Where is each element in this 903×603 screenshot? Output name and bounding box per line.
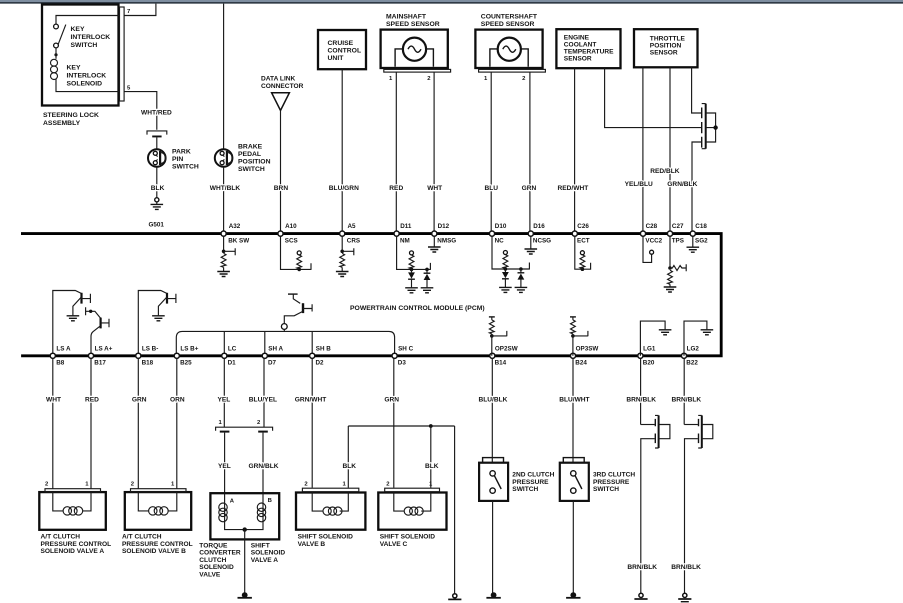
svg-text:SWITCH: SWITCH [238, 166, 265, 173]
diode to ground (NC high) [515, 269, 528, 292]
terminal D2 [310, 345, 332, 366]
svg-text:PARK: PARK [172, 149, 191, 156]
svg-text:D2: D2 [316, 360, 325, 367]
svg-text:CRUISE: CRUISE [328, 40, 354, 47]
terminal D16 [528, 223, 551, 245]
wire ECT pin 2 to connector [605, 68, 702, 127]
svg-text:SHIFT SOLENOID: SHIFT SOLENOID [380, 534, 436, 541]
diode to ground (NM low) [405, 269, 418, 292]
svg-text:LG1: LG1 [643, 345, 656, 352]
shift solenoid valve B [296, 482, 365, 548]
svg-text:ASSEMBLY: ASSEMBLY [43, 120, 81, 127]
svg-text:3RD CLUTCH: 3RD CLUTCH [593, 472, 635, 479]
wire TPS pin 3 to connector [692, 67, 702, 113]
wire 7 to top [124, 4, 156, 16]
svg-text:COUNTERSHAFT: COUNTERSHAFT [481, 14, 538, 21]
svg-text:B25: B25 [180, 360, 192, 367]
svg-text:YEL: YEL [218, 396, 231, 403]
svg-text:INTERLOCK: INTERLOCK [71, 34, 111, 41]
TPS internal divider resistors [664, 236, 687, 292]
svg-text:NM: NM [400, 238, 410, 245]
svg-text:1: 1 [429, 482, 433, 488]
svg-text:VALVE C: VALVE C [380, 541, 408, 548]
svg-text:TORQUE: TORQUE [199, 543, 228, 550]
svg-text:2ND CLUTCH: 2ND CLUTCH [512, 472, 554, 479]
steering lock assembly label [43, 112, 99, 127]
svg-text:A32: A32 [229, 223, 241, 230]
svg-text:A10: A10 [285, 223, 297, 230]
terminal D12 [432, 223, 457, 245]
svg-text:CONNECTOR: CONNECTOR [261, 83, 304, 90]
terminal B8 [50, 345, 71, 366]
svg-text:B8: B8 [56, 360, 65, 367]
svg-text:DATA LINK: DATA LINK [261, 76, 296, 83]
svg-text:2: 2 [427, 76, 431, 82]
svg-text:D16: D16 [533, 223, 545, 230]
svg-text:SOLENOID: SOLENOID [199, 564, 234, 571]
terminal D11 [394, 223, 412, 245]
svg-text:STEERING LOCK: STEERING LOCK [43, 112, 99, 119]
svg-text:5: 5 [127, 86, 131, 92]
svg-text:PIN: PIN [172, 156, 183, 163]
wire BRN/BLK (LG2) [672, 358, 702, 424]
svg-text:D1: D1 [228, 360, 237, 367]
svg-text:1: 1 [484, 76, 488, 82]
svg-text:G501: G501 [149, 222, 165, 229]
svg-text:B18: B18 [142, 360, 154, 367]
svg-text:7: 7 [127, 9, 131, 15]
svg-text:C27: C27 [672, 223, 684, 230]
svg-text:B14: B14 [495, 360, 507, 367]
svg-text:B17: B17 [94, 360, 106, 367]
svg-text:POWERTRAIN CONTROL MODULE (PCM: POWERTRAIN CONTROL MODULE (PCM) [350, 305, 485, 312]
brake pedal position switch [215, 144, 271, 174]
wire BLK to ground [448, 426, 461, 599]
svg-text:WHT/RED: WHT/RED [141, 110, 172, 117]
svg-text:C18: C18 [695, 223, 707, 230]
wire GRN/BLK (below connector) [249, 433, 279, 494]
svg-text:BRN/BLK: BRN/BLK [626, 396, 656, 403]
node (common return) [243, 527, 247, 531]
connector above park pin switch [147, 131, 167, 149]
wire GRN/WHT [295, 358, 327, 487]
svg-text:SWITCH: SWITCH [512, 486, 538, 493]
LG2 internal ground [684, 321, 713, 356]
svg-text:PRESSURE CONTROL: PRESSURE CONTROL [41, 541, 112, 548]
wire to ground (solenoid common) [238, 530, 252, 598]
output bracket rail [176, 331, 394, 355]
key interlock solenoid [51, 59, 120, 91]
svg-text:BLU/WHT: BLU/WHT [559, 396, 589, 403]
wire RED [389, 72, 403, 231]
svg-text:SH C: SH C [398, 345, 413, 352]
torque converter clutch solenoid valve / shift solenoid valve A [210, 493, 279, 539]
svg-text:POSITION: POSITION [650, 42, 682, 49]
svg-text:PRESSURE: PRESSURE [512, 479, 549, 486]
SCS internal: pull-up resistor [281, 236, 312, 271]
wire GRN/BLK [667, 142, 701, 231]
svg-text:A: A [230, 498, 235, 504]
svg-text:BRN/BLK: BRN/BLK [672, 396, 702, 403]
svg-text:WHT/BLK: WHT/BLK [210, 185, 241, 192]
svg-text:CONTROL: CONTROL [328, 48, 362, 55]
wire BLK (shift B) [343, 426, 357, 488]
ECT internal pull-up resistor [575, 236, 591, 271]
svg-text:1: 1 [85, 482, 89, 488]
svg-text:B20: B20 [643, 360, 655, 367]
svg-text:SPEED SENSOR: SPEED SENSOR [386, 21, 440, 28]
svg-text:BRN/BLK: BRN/BLK [671, 564, 701, 571]
svg-text:1: 1 [171, 482, 175, 488]
svg-text:LS A+: LS A+ [95, 345, 113, 352]
terminal B24 [570, 345, 598, 366]
terminal C18 [690, 223, 708, 245]
terminal B22 [681, 345, 699, 366]
svg-text:C28: C28 [646, 223, 658, 230]
key interlock switch [54, 16, 120, 50]
svg-text:ORN: ORN [170, 396, 185, 403]
svg-text:SENSOR: SENSOR [564, 55, 592, 62]
svg-text:TPS: TPS [672, 238, 684, 245]
terminal B25 [174, 345, 199, 366]
svg-text:SHIFT SOLENOID: SHIFT SOLENOID [298, 534, 354, 541]
svg-text:CONVERTER: CONVERTER [199, 550, 241, 557]
terminal A32 [221, 223, 249, 245]
diode to ground (NM high) [421, 269, 434, 292]
svg-text:WHT: WHT [46, 396, 61, 403]
svg-text:1: 1 [343, 482, 347, 488]
terminal A10 [278, 223, 298, 245]
node (switch/solenoid junction) [54, 48, 57, 59]
NCSG internal ground [525, 236, 538, 254]
wire BLK [151, 167, 165, 198]
node (sensor ground junction) [713, 125, 717, 129]
svg-text:TEMPERATURE: TEMPERATURE [564, 48, 614, 55]
svg-text:SOLENOID: SOLENOID [67, 81, 103, 88]
wire RED/BLK (TPS) [650, 67, 680, 231]
svg-text:D7: D7 [268, 360, 277, 367]
OP3SW internal resistor [570, 317, 588, 356]
svg-text:GRN/BLK: GRN/BLK [249, 463, 279, 470]
inline connector (TPS/ECT sensor grounds) [702, 104, 716, 149]
svg-text:2: 2 [522, 76, 526, 82]
terminal C28 [640, 223, 662, 245]
svg-text:VALVE: VALVE [199, 571, 221, 578]
svg-text:LC: LC [228, 345, 237, 352]
svg-text:RED/WHT: RED/WHT [558, 185, 589, 192]
svg-text:BLU: BLU [485, 185, 499, 192]
terminal D1 [222, 345, 237, 366]
svg-text:A/T CLUTCH: A/T CLUTCH [41, 534, 81, 541]
NC internal: resistor + clamp diodes [492, 236, 529, 271]
svg-text:VCC2: VCC2 [645, 238, 662, 245]
torque converter labels [199, 543, 241, 579]
svg-text:CRS: CRS [347, 238, 360, 245]
wire to ground (3rd clutch) [566, 501, 580, 598]
svg-text:SHIFT: SHIFT [251, 543, 270, 550]
wire YEL/BLU [625, 67, 653, 231]
svg-text:A5: A5 [348, 223, 357, 230]
A/T clutch pressure control solenoid valve B [122, 482, 193, 555]
svg-text:POSITION: POSITION [238, 159, 271, 166]
svg-text:OP2SW: OP2SW [495, 345, 518, 352]
svg-text:2: 2 [45, 482, 49, 488]
svg-text:BLU/YEL: BLU/YEL [249, 396, 277, 403]
wire BRN/BLK to ground G401 [671, 564, 701, 602]
svg-text:BRN/BLK: BRN/BLK [627, 564, 657, 571]
svg-text:THROTTLE: THROTTLE [650, 35, 686, 42]
terminal C27 [667, 223, 684, 245]
NM internal: resistor + clamp diodes [397, 236, 431, 271]
wire WHT/RED [141, 110, 172, 117]
svg-text:SH A: SH A [268, 345, 283, 352]
cruise control unit [318, 30, 366, 69]
wire GRN [522, 72, 537, 231]
SG2 internal ground [687, 236, 700, 252]
svg-text:D10: D10 [495, 223, 507, 230]
svg-text:NCSG: NCSG [533, 238, 551, 245]
wire BLK (shift C) [425, 426, 439, 488]
wire BRN/BLK (LG1) [626, 358, 656, 424]
svg-text:D12: D12 [438, 223, 450, 230]
svg-text:INTERLOCK: INTERLOCK [67, 73, 107, 80]
svg-text:D3: D3 [398, 360, 407, 367]
terminal B17 [88, 345, 112, 366]
wire BLU/GRN [329, 70, 359, 232]
svg-text:PRESSURE: PRESSURE [593, 479, 630, 486]
CRS internal: node, tap, resistor, ground [336, 236, 354, 276]
svg-text:BLK: BLK [343, 463, 357, 470]
svg-text:BLU/BLK: BLU/BLK [479, 396, 508, 403]
wire YEL (below connector) [218, 433, 231, 494]
svg-text:BRN: BRN [274, 185, 289, 192]
svg-text:ECT: ECT [577, 238, 590, 245]
svg-text:WHT: WHT [427, 185, 442, 192]
data link connector [261, 76, 304, 111]
shift solenoid valve A label [251, 543, 286, 564]
svg-text:MAINSHAFT: MAINSHAFT [386, 14, 427, 21]
wire GRN [132, 358, 147, 488]
svg-text:VALVE A: VALVE A [251, 557, 279, 564]
terminal D3 [392, 345, 414, 366]
svg-text:ENGINE: ENGINE [564, 34, 590, 41]
svg-text:BLU/GRN: BLU/GRN [329, 185, 359, 192]
svg-text:SWITCH: SWITCH [172, 164, 199, 171]
engine coolant temperature sensor [556, 29, 620, 68]
svg-text:SH B: SH B [316, 345, 331, 352]
wire WHT [427, 72, 442, 231]
svg-text:SWITCH: SWITCH [593, 486, 619, 493]
mainshaft speed sensor [381, 14, 451, 82]
window chrome top bar [0, 0, 903, 2]
PCM outline buses [21, 234, 721, 356]
svg-text:SOLENOID: SOLENOID [251, 550, 286, 557]
svg-text:NC: NC [495, 238, 505, 245]
svg-text:BRAKE: BRAKE [238, 144, 263, 151]
shift solenoid valve C [378, 482, 446, 548]
svg-text:PEDAL: PEDAL [238, 151, 261, 158]
svg-text:B: B [268, 498, 272, 504]
BK SW internal: node, tap, resistor R, ground [217, 236, 235, 276]
svg-text:LS B-: LS B- [142, 345, 158, 352]
svg-text:LG2: LG2 [687, 345, 700, 352]
wire WHT/BLK (brake pedal position switch) [223, 4, 225, 150]
svg-text:2: 2 [257, 420, 261, 426]
park pin switch [148, 149, 199, 171]
svg-text:YEL/BLU: YEL/BLU [625, 181, 653, 188]
terminal D10 [489, 223, 506, 245]
svg-text:KEY: KEY [71, 26, 85, 33]
wire 5 [124, 86, 157, 130]
svg-text:B22: B22 [686, 360, 698, 367]
svg-text:C26: C26 [577, 223, 589, 230]
svg-text:PRESSURE CONTROL: PRESSURE CONTROL [122, 541, 193, 548]
svg-text:SG2: SG2 [695, 238, 708, 245]
terminal B20 [638, 345, 656, 366]
inline connector (solenoid harness) [216, 420, 273, 433]
inline connector (LG1 harness) [641, 415, 670, 593]
svg-text:VALVE B: VALVE B [298, 541, 326, 548]
wire to ground (2nd clutch) [486, 501, 500, 598]
svg-text:1: 1 [389, 76, 393, 82]
PCM label [350, 305, 485, 312]
svg-text:LS B+: LS B+ [180, 345, 198, 352]
svg-text:SCS: SCS [285, 238, 298, 245]
NMSG internal ground [428, 236, 441, 252]
BLK common rail [348, 424, 454, 428]
wire BLU [485, 72, 499, 231]
LG1 internal ground [640, 321, 671, 356]
wire GRN (SH C) [384, 358, 399, 487]
wire BRN/BLK to ground G101 [627, 564, 657, 599]
svg-text:GRN/BLK: GRN/BLK [667, 181, 697, 188]
svg-text:YEL: YEL [218, 463, 231, 470]
wire BLU/WHT [559, 358, 589, 462]
svg-text:GRN/WHT: GRN/WHT [295, 396, 327, 403]
svg-text:BK SW: BK SW [228, 238, 249, 245]
svg-text:RED: RED [389, 185, 403, 192]
svg-text:GRN: GRN [522, 185, 537, 192]
terminal B18 [136, 345, 159, 366]
svg-text:KEY: KEY [67, 65, 81, 72]
wire ORN [170, 358, 185, 488]
terminal C26 [572, 223, 590, 245]
wire BLU/YEL [249, 358, 277, 427]
transistor Q2 (LS A+ driver) [86, 307, 109, 356]
svg-text:A/T CLUTCH: A/T CLUTCH [122, 534, 162, 541]
wire BRN [274, 110, 289, 231]
wire WHT [46, 358, 61, 488]
svg-text:2: 2 [131, 482, 135, 488]
diode to ground (NC low) [499, 269, 512, 292]
wire to A32 [210, 167, 241, 232]
steering lock assembly box [42, 5, 124, 106]
svg-text:RED/BLK: RED/BLK [650, 168, 680, 175]
transistor Q1 (LS A driver) [53, 291, 91, 356]
A/T clutch pressure control solenoid valve A [39, 482, 111, 555]
2nd clutch pressure switch [479, 458, 555, 501]
svg-text:OP3SW: OP3SW [576, 345, 599, 352]
svg-text:SENSOR: SENSOR [650, 49, 678, 56]
throttle position sensor [634, 29, 698, 67]
svg-text:LS A: LS A [56, 345, 71, 352]
svg-text:SPEED SENSOR: SPEED SENSOR [481, 21, 535, 28]
svg-text:GRN: GRN [132, 396, 147, 403]
VCC2 internal supply [643, 236, 654, 262]
svg-text:COOLANT: COOLANT [564, 41, 597, 48]
countershaft speed sensor [475, 14, 545, 82]
svg-text:BLK: BLK [425, 463, 439, 470]
terminal A5 [340, 223, 360, 245]
OP2SW internal resistor [489, 317, 507, 356]
svg-text:2: 2 [304, 482, 308, 488]
svg-text:GRN: GRN [384, 396, 399, 403]
svg-text:UNIT: UNIT [328, 55, 345, 62]
svg-text:SWITCH: SWITCH [71, 42, 98, 49]
svg-text:SOLENOID VALVE B: SOLENOID VALVE B [122, 548, 186, 555]
svg-text:2: 2 [386, 482, 390, 488]
transistor Q4 (shift solenoid driver) [281, 294, 312, 331]
ground G501 [149, 198, 165, 229]
svg-text:NMSG: NMSG [437, 238, 456, 245]
terminal D7 [262, 345, 283, 366]
svg-text:CLUTCH: CLUTCH [199, 557, 226, 564]
transistor Q3 (LS B driver) [138, 291, 176, 356]
svg-text:SOLENOID VALVE A: SOLENOID VALVE A [41, 548, 105, 555]
svg-text:D11: D11 [400, 223, 412, 230]
svg-text:1: 1 [219, 420, 223, 426]
svg-text:BLK: BLK [151, 185, 165, 192]
svg-text:B24: B24 [575, 360, 587, 367]
inline connector (LG2 harness) [684, 415, 713, 593]
3rd clutch pressure switch [560, 458, 636, 501]
wire RED/WHT [558, 68, 589, 231]
wire BLU/BLK [479, 358, 508, 462]
wire RED [85, 358, 99, 488]
wire YEL (LC) [218, 358, 231, 427]
svg-text:RED: RED [85, 396, 99, 403]
terminal B14 [490, 345, 518, 366]
